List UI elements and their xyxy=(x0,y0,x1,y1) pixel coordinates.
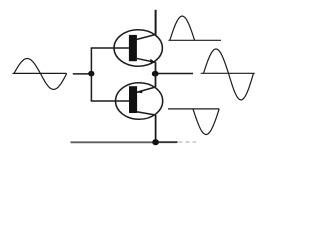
output waveform middle full sine xyxy=(204,49,254,100)
transistor Q1 circle xyxy=(114,30,162,66)
output waveform bottom baseline xyxy=(168,108,219,110)
transistor Q2 collector diagonal xyxy=(137,112,156,115)
wire bottom rail faint dashes xyxy=(179,141,197,143)
node bottom rail junction xyxy=(152,139,159,145)
wire output node to Q2 emitter xyxy=(155,74,157,88)
wire collector Q2 to bottom rail xyxy=(155,115,157,142)
wire emitter Q1 to output node xyxy=(155,62,157,74)
transistor Q2 circle xyxy=(116,83,163,120)
output waveform bottom negative half-sine xyxy=(193,109,219,135)
wire output xyxy=(158,73,193,75)
transistor Q1 collector diagonal xyxy=(136,35,156,40)
wire base bottom xyxy=(91,100,130,102)
wire bottom rail gray xyxy=(71,141,153,143)
input sine wave xyxy=(14,59,67,90)
wire input bracket vertical xyxy=(90,48,92,101)
wire collector Q1 to top rail xyxy=(155,10,157,35)
wire bottom rail right of node xyxy=(159,141,178,143)
node A input junction xyxy=(88,71,94,77)
wire base top xyxy=(91,47,130,49)
output waveform middle axis xyxy=(201,72,255,74)
input sine axis xyxy=(13,72,67,74)
node output junction xyxy=(152,71,159,77)
wire input xyxy=(73,73,89,75)
transistor Q1 emitter diagonal xyxy=(136,58,156,62)
output waveform top baseline xyxy=(169,39,222,41)
transistor Q2 emitter diagonal xyxy=(137,87,156,92)
output waveform top positive half-sine xyxy=(170,16,195,40)
transistor Q2 emitter arrow xyxy=(137,90,142,93)
transistor Q1 base bar xyxy=(129,35,137,61)
transistor Q1 emitter arrow xyxy=(150,59,155,63)
transistor Q2 base bar xyxy=(129,86,137,113)
